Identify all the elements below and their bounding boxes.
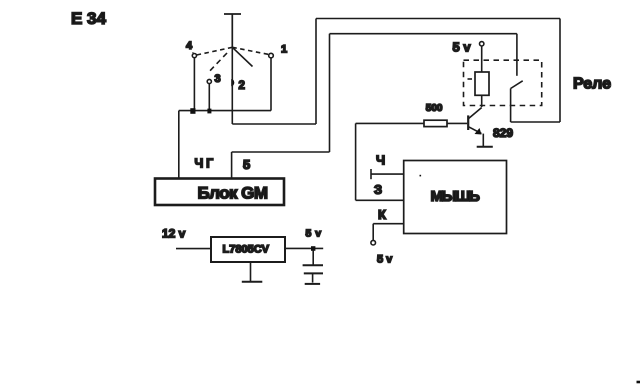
coil polarity tick bbox=[468, 78, 473, 80]
svg-text:Реле: Реле bbox=[573, 76, 611, 93]
stray dot bbox=[420, 175, 422, 177]
contact 4 circle bbox=[192, 52, 196, 57]
transistor 829 base bar bbox=[467, 115, 469, 130]
transistor emitter with arrow bbox=[469, 127, 482, 135]
resistor 500 body bbox=[424, 120, 447, 126]
svg-text:L7805CV: L7805CV bbox=[223, 244, 270, 256]
svg-text:2: 2 bbox=[239, 80, 245, 92]
transistor collector bbox=[469, 108, 482, 119]
label 1 bbox=[281, 44, 287, 56]
contact 1 circle bbox=[269, 53, 274, 58]
pin Ch wire bbox=[371, 173, 404, 175]
svg-text:К: К bbox=[378, 207, 386, 222]
wire to relay fixed contact bbox=[516, 34, 518, 76]
label 500 bbox=[426, 103, 443, 114]
junction dot B bbox=[207, 109, 211, 114]
relay dashed box bbox=[464, 60, 542, 105]
label 5 v (mouse K) bbox=[377, 254, 393, 266]
wire outer loop bottom horizontal bbox=[511, 121, 560, 123]
rotary switch dashed arm to contact 4 bbox=[197, 47, 233, 55]
rotary switch dashed arm to contact 3 bbox=[210, 53, 227, 71]
svg-text:500: 500 bbox=[426, 103, 443, 114]
wire pole to outer loop bbox=[232, 123, 316, 125]
horizontal bus wire under switch bbox=[179, 110, 271, 112]
wire 5v to coil bbox=[481, 46, 483, 72]
wire to relay armature bbox=[510, 89, 512, 123]
contact 3 circle bbox=[207, 79, 211, 83]
label K bbox=[378, 207, 386, 222]
label 3 bbox=[215, 73, 221, 85]
contact 2 (filled, on pole) bbox=[231, 79, 234, 86]
label 4 bbox=[186, 40, 193, 52]
junction dot output bbox=[311, 246, 315, 251]
wire Blok GM pin5 up bbox=[231, 152, 233, 178]
wire base net vertical (to pin Z) bbox=[355, 123, 357, 200]
svg-text:5: 5 bbox=[243, 157, 250, 172]
mouse box bbox=[404, 161, 507, 234]
label Ch bbox=[376, 153, 385, 168]
capacitor C1 lead bottom bbox=[312, 273, 314, 282]
label 5 v (regulator) bbox=[306, 228, 322, 240]
capacitor C1 lead top bbox=[312, 250, 314, 265]
svg-text:829: 829 bbox=[493, 126, 513, 140]
svg-text:3: 3 bbox=[215, 73, 221, 85]
label E 34 bbox=[71, 9, 107, 28]
relay switch armature bbox=[511, 81, 523, 89]
switch pole wire down bbox=[231, 47, 233, 124]
pin Z wire bbox=[356, 199, 404, 201]
capacitor C1 plate top bbox=[303, 264, 323, 266]
pin K wire bbox=[373, 223, 404, 225]
svg-text:ЧГ: ЧГ bbox=[195, 157, 216, 171]
ground bar (capacitor) bbox=[305, 283, 320, 285]
Blok GM box bbox=[155, 179, 284, 206]
capacitor C1 plate bottom bbox=[304, 272, 323, 274]
wire outer loop left vertical bbox=[315, 19, 317, 125]
wire outer loop top horizontal bbox=[316, 18, 560, 20]
label L7805CV bbox=[223, 244, 270, 256]
svg-text:5 v: 5 v bbox=[377, 254, 393, 266]
pin Ch terminal bar bbox=[370, 169, 372, 179]
label Blok GM bbox=[198, 184, 268, 203]
label Rele bbox=[573, 76, 611, 93]
svg-text:5 v: 5 v bbox=[306, 228, 322, 240]
pin K wire down bbox=[372, 224, 374, 241]
wire from contact 1 down bbox=[270, 58, 272, 111]
rotary switch wiper (solid arm) bbox=[232, 47, 252, 66]
relay coil bbox=[475, 72, 489, 95]
corner mark bbox=[637, 381, 640, 384]
antenna top bar bbox=[224, 14, 241, 47]
svg-text:МЫШЬ: МЫШЬ bbox=[431, 188, 481, 205]
ground bar (regulator) bbox=[242, 281, 262, 283]
wire pin5 top horizontal bbox=[330, 33, 517, 35]
wire pin5 horizontal bbox=[232, 151, 330, 153]
pin K terminal circle bbox=[371, 240, 376, 245]
wire bus to Blok GM (ChG pin) bbox=[178, 111, 180, 178]
wire from contact 3 down bbox=[208, 84, 210, 111]
label MYSH bbox=[431, 188, 481, 205]
resistor 500 lead left bbox=[356, 122, 424, 124]
label 829 bbox=[493, 126, 513, 140]
regulator input wire bbox=[176, 248, 211, 250]
label Z bbox=[374, 182, 382, 197]
svg-text:З: З bbox=[374, 182, 382, 197]
regulator L7805CV box bbox=[211, 237, 285, 262]
rotary switch dashed arm to contact 1 bbox=[232, 47, 269, 54]
svg-text:5 v: 5 v bbox=[453, 40, 472, 55]
label 5 v (relay) bbox=[453, 40, 472, 55]
svg-text:4: 4 bbox=[186, 40, 193, 52]
svg-text:E 34: E 34 bbox=[71, 9, 107, 28]
svg-text:Блок GM: Блок GM bbox=[198, 184, 268, 203]
wire pin5 vertical up bbox=[329, 34, 331, 152]
label ChG bbox=[195, 157, 216, 171]
regulator ground wire bbox=[250, 262, 252, 281]
wire from contact 4 down bbox=[193, 58, 195, 111]
ground bar (emitter) bbox=[477, 146, 493, 148]
resistor 500 lead right bbox=[447, 122, 467, 124]
wire outer loop right vertical bbox=[559, 19, 561, 123]
junction dot A bbox=[190, 108, 195, 114]
regulator output wire bbox=[285, 247, 323, 249]
wire coil to collector bbox=[481, 95, 483, 107]
emitter wire down bbox=[482, 134, 484, 147]
svg-text:1: 1 bbox=[281, 44, 287, 56]
relay 5v terminal circle bbox=[480, 42, 484, 46]
svg-text:Ч: Ч bbox=[376, 153, 385, 168]
label 12 v bbox=[162, 227, 186, 241]
label 2 bbox=[239, 80, 245, 92]
svg-text:12 v: 12 v bbox=[162, 227, 186, 241]
label 5 (pin) bbox=[243, 157, 250, 172]
